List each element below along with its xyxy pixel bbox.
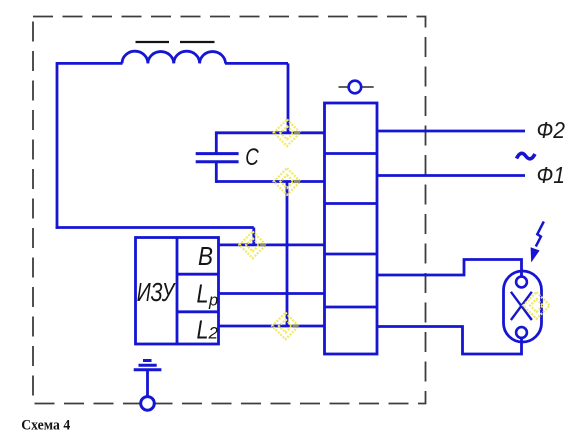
ground chassis circle on border (141, 397, 155, 411)
wire: phase F1 output (377, 174, 525, 177)
terminal block divider 4 (325, 306, 378, 309)
wire: phase F2 output (377, 130, 525, 133)
IZU row divider B/Lp (177, 273, 219, 276)
wire: bottom loop horizontal (56, 226, 254, 229)
terminal block divider 3 (325, 253, 378, 256)
junction marker gray tick (node B) (260, 243, 266, 246)
junction marker gray tick (cap top) (294, 131, 300, 134)
junction marker at cap top node (274, 120, 301, 147)
wire: lamp top connection (377, 260, 522, 278)
ground stem (146, 370, 149, 396)
wire: inductor right horizontal (225, 62, 288, 65)
svg-text:2: 2 (208, 324, 219, 343)
wire: node L2 horizontal (IZU L2 to block) (219, 325, 325, 328)
terminal circle above block (349, 81, 362, 94)
terminal block divider 2 (325, 202, 378, 205)
lamp X mark stroke 2 (511, 292, 532, 320)
lamp X mark stroke 1 (511, 292, 532, 320)
wire: left loop vertical (56, 62, 59, 229)
lamp top electrode circle (516, 277, 527, 288)
junction marker at node L2 (272, 313, 299, 340)
inductor L (ballast choke) (122, 51, 226, 63)
ground bar middle (139, 364, 157, 367)
svg-text:Ф1: Ф1 (537, 162, 566, 188)
enclosure dashed border (33, 17, 426, 404)
svg-text:L: L (197, 315, 209, 345)
svg-text:p: p (208, 292, 218, 310)
AC tilde symbol (517, 153, 536, 159)
wire: lamp bottom connection (377, 327, 522, 355)
svg-text:ИЗУ: ИЗУ (137, 277, 176, 307)
inductor core bar 1 (136, 41, 170, 43)
terminal block divider 1 (325, 152, 378, 155)
IZU inner vertical divider (176, 238, 179, 345)
inductor core bar 2 (180, 41, 215, 43)
ground bar wide (134, 368, 162, 371)
wire: vertical from inductor down to capacitor top node (287, 63, 290, 132)
junction marker at cap bottom node (274, 168, 301, 195)
wire: node B horizontal (IZU B to block) (219, 243, 325, 246)
wire: node Lp horizontal (IZU Lp to block) (219, 292, 325, 295)
terminal block XT1 outline (325, 103, 378, 354)
junction marker gray tick (cap bottom) (294, 180, 300, 183)
wire: center vertical from cap bottom node to L2 wire node (286, 182, 289, 327)
svg-text:C: C (245, 144, 259, 171)
IZU row divider Lp/L2 (177, 310, 219, 313)
svg-text:Схема 4: Схема 4 (21, 418, 70, 434)
svg-text:Ф2: Ф2 (537, 117, 566, 143)
terminal circle lead line (339, 86, 374, 88)
capacitor C1 bottom stub (215, 162, 218, 183)
wire: capacitor top horizontal to terminal block (216, 131, 324, 134)
wire: top left horizontal to inductor (57, 62, 123, 65)
junction marker at node B corner (239, 232, 266, 259)
capacitor C1 top plate (196, 152, 239, 155)
svg-text:L: L (197, 279, 209, 309)
wire: loop drop to node B wire (252, 228, 255, 245)
lamp bottom electrode circle (516, 327, 527, 338)
capacitor C1 top stub (215, 131, 218, 153)
lamp EL1 bulb outline (504, 271, 542, 342)
wire: capacitor bottom horizontal to terminal block (216, 180, 324, 183)
svg-text:B: B (198, 241, 213, 271)
junction marker gray tick (node L2) (293, 324, 299, 327)
ignition lightning arrowhead (531, 247, 540, 262)
IZU ignition unit outline (136, 238, 219, 345)
capacitor C1 bottom plate (196, 160, 239, 163)
ground bar small (143, 359, 152, 362)
ignition lightning arrow (536, 222, 544, 247)
junction marker at lamp (523, 292, 550, 319)
